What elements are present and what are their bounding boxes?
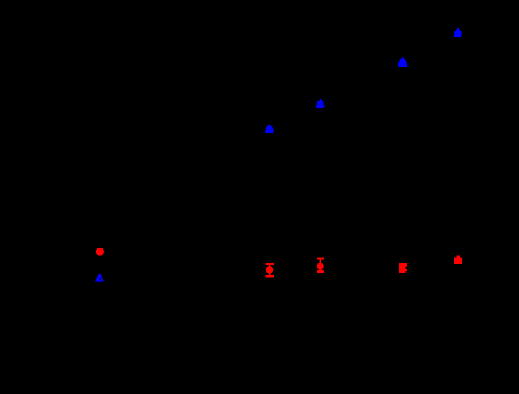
red series point 3 (errorbar with circle marker, x=320) xyxy=(317,258,324,273)
red series point 5 (circle marker with caps, x=458) xyxy=(454,256,462,265)
blue series point 3 (triangle marker with caps, x=320) xyxy=(316,99,325,108)
blue series point 1 (triangle marker with caps, x=456) xyxy=(454,28,462,37)
dark notch inside triangle xyxy=(99,278,101,280)
blue series point 5 (hollow-looking triangle marker, x=99) xyxy=(95,274,104,282)
red series point 2 (errorbar with circle marker, x=269) xyxy=(266,263,275,277)
red series point 4 (errorbar with circle marker, x=403) xyxy=(399,263,407,273)
blue series point 4 (triangle marker with caps, x=269) xyxy=(265,125,274,133)
red series point 1 (circle marker, x=99) xyxy=(96,248,104,256)
blue series point 2 (triangle marker with caps, x=402) xyxy=(398,58,407,68)
